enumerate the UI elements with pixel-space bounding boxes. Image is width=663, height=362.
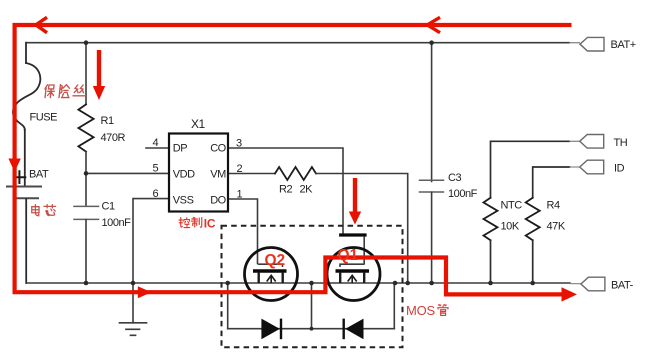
resistor R1 470R zigzag bbox=[78, 104, 93, 151]
svg-text:CO: CO bbox=[210, 143, 226, 155]
red arrowhead down on left rail bbox=[8, 159, 20, 173]
svg-text:TH: TH bbox=[614, 137, 628, 149]
wire bottom rail bbox=[26, 282, 570, 284]
svg-text:R1: R1 bbox=[101, 115, 114, 127]
diode D1 cathode bar bbox=[343, 319, 345, 340]
wire R1 top bbox=[85, 43, 87, 105]
IC U1 box X1 bbox=[169, 134, 228, 212]
transistor Q1 arrow bbox=[348, 275, 357, 283]
svg-text:100nF: 100nF bbox=[102, 217, 132, 229]
svg-text:DP: DP bbox=[173, 143, 187, 155]
capacitor C3 plate top bbox=[420, 179, 444, 181]
svg-text:2: 2 bbox=[237, 163, 243, 175]
wire diode rail bbox=[228, 328, 395, 330]
svg-text:NTC: NTC bbox=[501, 200, 523, 212]
transistor Q1 legs bbox=[340, 272, 364, 283]
svg-text:3: 3 bbox=[236, 138, 242, 150]
red annotation arrow at Q1 gate bbox=[353, 178, 357, 212]
wire VSS to ground bbox=[133, 199, 169, 283]
svg-text:1: 1 bbox=[237, 189, 243, 201]
red chevron arrowhead top mid bbox=[427, 17, 440, 32]
svg-text:R4: R4 bbox=[547, 200, 560, 212]
svg-text:IC: IC bbox=[204, 217, 216, 231]
svg-text:R2: R2 bbox=[279, 184, 292, 196]
red arrowhead right at BAT- bbox=[562, 287, 578, 301]
svg-text:VSS: VSS bbox=[173, 195, 194, 207]
svg-text:C3: C3 bbox=[448, 172, 461, 184]
wire R2 to VM drop node bbox=[316, 174, 408, 284]
transistor Q2 body circle bbox=[245, 248, 298, 301]
label 电芯 (cell) red bbox=[32, 205, 56, 216]
transistor Q2 arrow bbox=[267, 275, 276, 283]
svg-text:Q1: Q1 bbox=[338, 247, 359, 264]
wire battery to bottom rail bbox=[25, 199, 27, 283]
red arrowhead right on bottom rail bbox=[138, 286, 152, 298]
svg-text:470R: 470R bbox=[101, 132, 126, 144]
wire R1 bottom to C1 bbox=[85, 152, 87, 206]
tag stub wires grey bbox=[570, 43, 581, 284]
wire C3 to bottom rail bbox=[431, 192, 433, 283]
diode D2 cathode bar bbox=[280, 319, 282, 340]
thermistor NTC 10K zigzag bbox=[484, 198, 498, 240]
terminal tag TH bbox=[580, 135, 604, 149]
RED-OVERLAY bbox=[15, 17, 572, 294]
MOSFET dashed enclosure bbox=[222, 226, 403, 347]
fuse F1 bbox=[13, 63, 40, 130]
transistor Q1 channel bar bbox=[336, 269, 370, 272]
diode D2 body bbox=[261, 319, 279, 340]
wire C1 to bottom rail bbox=[85, 220, 87, 283]
svg-text:100nF: 100nF bbox=[448, 188, 478, 200]
svg-text:DO: DO bbox=[210, 195, 226, 207]
capacitor C1 plate bottom bbox=[74, 218, 99, 220]
svg-text:BAT-: BAT- bbox=[611, 280, 634, 292]
transistor Q2 gate plate bbox=[258, 264, 283, 267]
svg-text:Q2: Q2 bbox=[265, 252, 286, 269]
capacitor C3 plate bottom bbox=[420, 191, 444, 193]
terminal tag BAT+ bbox=[580, 37, 604, 51]
wire left vertical to fuse bbox=[25, 43, 27, 63]
wire fuse to battery bbox=[24, 130, 26, 186]
red current path left loop bbox=[15, 25, 572, 294]
wire CO pin3 to Q1 gate bbox=[228, 148, 343, 233]
wire MOSFET left drop bbox=[227, 283, 229, 329]
svg-text:10K: 10K bbox=[501, 221, 520, 233]
TEXT-BLACK bbox=[29, 39, 636, 292]
battery cell BAT plate - bbox=[15, 197, 39, 199]
wire top rail BAT+ bbox=[27, 42, 570, 44]
svg-text:47K: 47K bbox=[547, 221, 566, 233]
svg-text:X1: X1 bbox=[191, 117, 206, 131]
TEXT-RED bbox=[265, 247, 359, 269]
junction nodes bbox=[84, 40, 535, 330]
wire Q1 gate drop bbox=[363, 237, 365, 264]
wire NTC to bottom rail bbox=[490, 240, 492, 283]
red chevron arrowhead top left bbox=[36, 17, 47, 32]
label 控制IC (control IC) red bbox=[179, 218, 202, 228]
transistor Q2 channel bar bbox=[253, 269, 287, 272]
red annotation arrow at R1 bbox=[97, 50, 101, 86]
svg-text:4: 4 bbox=[153, 137, 159, 149]
terminal tag BAT- bbox=[581, 277, 605, 291]
diode D1 body bbox=[345, 319, 363, 340]
svg-text:FUSE: FUSE bbox=[30, 112, 58, 124]
wire VM pin2 to R2 bbox=[228, 173, 275, 175]
wire VDD to node bbox=[86, 172, 169, 174]
capacitor C1 plate top bbox=[74, 205, 99, 207]
wire R4 to ID bbox=[533, 167, 570, 198]
transistor Q2 legs bbox=[259, 272, 283, 283]
resistor R2 2K zigzag bbox=[275, 167, 316, 180]
wire mid source junction drop bbox=[311, 283, 313, 329]
svg-text:6: 6 bbox=[153, 188, 159, 200]
svg-text:VDD: VDD bbox=[173, 169, 195, 181]
svg-text:BAT: BAT bbox=[29, 169, 49, 181]
svg-text:VM: VM bbox=[210, 169, 226, 181]
ground bars bbox=[120, 323, 147, 336]
svg-text:C1: C1 bbox=[102, 201, 115, 213]
label 保险丝 (fuse) red bbox=[44, 85, 87, 98]
terminal tag ID bbox=[580, 160, 604, 174]
wire R4 to bottom rail bbox=[532, 240, 534, 283]
svg-text:2K: 2K bbox=[300, 184, 314, 196]
svg-text:MOS: MOS bbox=[406, 303, 436, 318]
wire MOSFET right rise bbox=[393, 283, 395, 329]
wire DO pin1 to Q2 gate bbox=[228, 199, 258, 264]
svg-text:ID: ID bbox=[614, 163, 625, 175]
Q1 gate thick bar bbox=[341, 233, 365, 236]
battery cell BAT plate + bbox=[7, 186, 41, 188]
wire C3 top bbox=[431, 43, 433, 182]
transistor Q1 gate plate bbox=[340, 264, 365, 267]
resistor R4 47K zigzag bbox=[526, 198, 540, 240]
svg-text:5: 5 bbox=[153, 163, 159, 175]
ground stem bbox=[132, 283, 134, 323]
wire NTC to TH bbox=[491, 141, 570, 198]
transistor Q1 body circle bbox=[327, 248, 380, 301]
svg-text:BAT+: BAT+ bbox=[611, 39, 636, 51]
wire DP stub pin4 bbox=[146, 147, 169, 149]
battery plus sign bbox=[14, 171, 26, 183]
